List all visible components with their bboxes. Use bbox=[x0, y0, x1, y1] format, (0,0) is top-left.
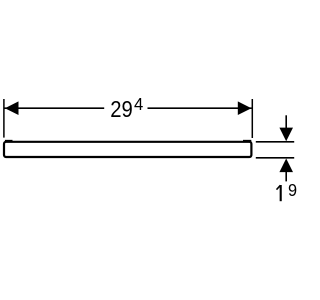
extension line right bbox=[251, 99, 253, 138]
panel top-right lip bbox=[243, 140, 251, 142]
tick line bottom (19 dim) bbox=[256, 157, 294, 159]
dimension line 294 (right segment) bbox=[148, 107, 252, 109]
svg-text:29: 29 bbox=[110, 96, 133, 123]
panel top-left lip bbox=[5, 140, 13, 142]
svg-text:4: 4 bbox=[134, 95, 143, 114]
dimension line 294 (left segment) bbox=[5, 107, 105, 109]
dimension text 294 bbox=[110, 95, 143, 122]
arrowhead left bbox=[5, 101, 19, 115]
arrowhead right bbox=[238, 101, 252, 115]
dimension text 19 bbox=[277, 181, 298, 202]
extension line left bbox=[3, 99, 5, 138]
tick line top (19 dim) bbox=[256, 141, 294, 143]
arrowhead up bbox=[279, 159, 293, 173]
leader line below up-arrow bbox=[285, 171, 287, 181]
leader line above down-arrow bbox=[285, 115, 287, 128]
svg-text:9: 9 bbox=[288, 181, 297, 201]
arrowhead down bbox=[279, 128, 293, 142]
panel P1 (cover plate, front view) bbox=[4, 141, 251, 157]
